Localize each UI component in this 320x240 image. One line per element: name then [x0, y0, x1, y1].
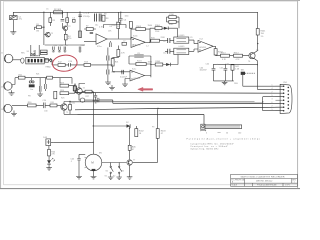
resistor R207: [82, 90, 93, 93]
resistor R103: [49, 12, 56, 26]
ground: [222, 82, 228, 84]
filter block FL1: [174, 37, 189, 43]
transistor T4b on bus B: [79, 94, 85, 102]
svg-text:R27: R27: [86, 96, 89, 98]
svg-text:C7: C7: [123, 41, 125, 43]
svg-text:C9: C9: [190, 37, 192, 39]
capacitor C302: [165, 49, 174, 54]
wire IC2 output: [213, 45, 215, 47]
svg-text:C30: C30: [44, 111, 47, 113]
wire mid column: [107, 48, 109, 83]
ground: [46, 168, 52, 170]
svg-text:TA 1: TA 1: [241, 69, 245, 72]
wire bus E: [78, 115, 205, 125]
node: [93, 142, 94, 143]
transistor Q5: [127, 160, 132, 177]
svg-text:10u/16V: 10u/16V: [200, 70, 208, 72]
wire: [25, 77, 47, 79]
wire feedback row2: [129, 56, 151, 77]
wire dashed tap: [245, 72, 255, 74]
svg-text:C16: C16: [59, 45, 62, 47]
svg-text:6: 6: [272, 102, 273, 104]
svg-text:S1: S1: [105, 176, 107, 178]
switch SW1: [106, 163, 114, 178]
svg-text:3=bias freq. 60/65 kHz: 3=bias freq. 60/65 kHz: [190, 147, 218, 150]
svg-text:1M: 1M: [36, 31, 39, 33]
svg-text:CN1: CN1: [283, 82, 287, 84]
wire row2 opamp inputs: [113, 72, 130, 84]
node: [93, 92, 94, 93]
svg-text:C12: C12: [163, 52, 166, 54]
capacitor C206: [119, 19, 127, 24]
wire feedback loop: [131, 28, 150, 42]
svg-text:P=testpoint A=on-channel + al: P=testpoint A=on-channel + alignment (he…: [187, 137, 260, 140]
page outer scan edge: [0, 0, 300, 189]
node row above head: [30, 55, 40, 56]
resistor R112 in ellipse: [58, 62, 65, 67]
wire: [69, 84, 78, 94]
svg-text:1.2: 1.2: [146, 46, 149, 48]
wire output row: [216, 54, 249, 57]
resistor R208: [102, 15, 109, 21]
wire: [65, 64, 84, 66]
ground: [105, 82, 111, 84]
ground: [37, 94, 43, 96]
wire opamp1 inputs: [107, 38, 131, 40]
wire connector feeders: [243, 75, 284, 111]
svg-text:T7: T7: [133, 160, 135, 162]
resistor R401: [256, 29, 266, 36]
capacitor C201: [39, 78, 41, 94]
wire: [13, 59, 21, 61]
capacitor C102: [61, 20, 69, 22]
wire row to ellipse: [44, 60, 57, 65]
ground: [10, 32, 16, 34]
wire row2 output: [145, 65, 156, 76]
capacitor C103: [78, 15, 90, 18]
node: [43, 27, 44, 28]
node: [113, 71, 114, 72]
node: [150, 64, 151, 65]
transistor Q4: [61, 104, 67, 110]
wire bias rail: [45, 44, 85, 46]
svg-text:100n: 100n: [125, 16, 129, 18]
feedback resistor R303: [136, 26, 145, 31]
svg-text:0.022uF: 0.022uF: [120, 77, 128, 79]
value labels top-right: [190, 36, 264, 39]
note text block: [187, 137, 260, 150]
transistor Q1: [46, 32, 54, 37]
capacitor C101: [10, 16, 23, 21]
svg-text:C18: C18: [81, 45, 84, 47]
svg-text:2: 2: [272, 106, 273, 108]
node: [74, 92, 75, 93]
svg-text:LM1458: LM1458: [199, 47, 206, 49]
value labels top-left: [46, 9, 104, 47]
wire cluster bottom: [213, 81, 233, 83]
svg-text:0.0039: 0.0039: [179, 46, 185, 48]
node: [79, 12, 80, 13]
svg-text:C15: C15: [54, 45, 57, 47]
node: [93, 125, 94, 126]
value labels top-mid: [104, 13, 184, 48]
resistor R102 on rail: [54, 9, 63, 14]
svg-text:100: 100: [238, 133, 241, 135]
capacitor C112: [63, 47, 66, 53]
capacitor C208 mid column: [107, 56, 116, 61]
jack J3 MIC: [1, 104, 12, 112]
resistor R104: [64, 31, 72, 46]
svg-text:1 OF 1: 1 OF 1: [285, 185, 290, 187]
svg-text:C8: C8: [163, 41, 165, 43]
capacitor C115: [48, 59, 52, 62]
wire cap ground: [78, 164, 80, 177]
ground: [122, 84, 128, 86]
capacitor C110: [52, 47, 55, 53]
svg-text:REC: REC: [21, 53, 26, 55]
svg-text:R.C.PHILIPS TA: R.C.PHILIPS TA: [232, 179, 245, 182]
wire: [43, 12, 45, 45]
svg-text:0.5: 0.5: [131, 147, 134, 149]
filter block FL2: [174, 48, 189, 54]
svg-text:SANYO M2511 CASSETTE RECORDER: SANYO M2511 CASSETTE RECORDER: [241, 175, 285, 178]
resistor R220: [113, 46, 126, 59]
wire R403 rail: [157, 109, 159, 162]
wire trim net: [167, 17, 180, 28]
wire lamp rail: [93, 126, 129, 159]
title block: [231, 174, 298, 186]
resistor R206: [73, 84, 76, 91]
resistor R404: [48, 149, 56, 156]
svg-text:PHILA CA. AMSTERDAM: PHILA CA. AMSTERDAM: [257, 184, 277, 187]
resistor R211: [122, 42, 126, 45]
ground: [116, 177, 122, 179]
inner drawing frame: [4, 1, 298, 185]
wire power cluster rail: [213, 64, 257, 89]
capacitor C230: [36, 103, 50, 109]
svg-text:1N60: 1N60: [148, 61, 153, 63]
svg-text:C5: C5: [46, 9, 48, 11]
wire bus C: [70, 101, 263, 103]
resistor R304 220K: [155, 25, 162, 30]
resistor R106: [79, 31, 82, 38]
svg-text:R25: R25: [61, 98, 64, 100]
wire R-diode row1: [150, 28, 178, 37]
svg-text:0: 0: [206, 133, 207, 135]
svg-text:S2: S2: [113, 176, 115, 178]
svg-text:Cxx: Cxx: [30, 89, 33, 91]
resistor R230: [28, 102, 37, 107]
wire: [12, 78, 19, 93]
resistor R204: [60, 90, 69, 95]
wire Q4 collector: [64, 102, 70, 104]
connector P1: [21, 58, 24, 63]
svg-text:R9: R9: [110, 26, 112, 28]
LED D404: [47, 156, 55, 168]
capacitor C202: [45, 78, 47, 91]
value labels mid: [21, 47, 250, 114]
svg-text:R21: R21: [36, 74, 39, 76]
DIN connector CN1: [276, 82, 293, 114]
svg-text:S3: S3: [27, 51, 29, 53]
svg-text:C3 47p: C3 47p: [83, 16, 91, 18]
resistor R107: [86, 28, 93, 31]
svg-text:2: 2: [272, 92, 273, 94]
svg-text:5: 5: [272, 95, 273, 97]
wire: [84, 29, 96, 41]
resistor R210 vertical: [129, 21, 132, 29]
op-amp U1a: [96, 34, 107, 48]
svg-text:T6: T6: [248, 61, 250, 63]
resistor R305: [155, 61, 163, 66]
capacitor C301: [166, 38, 174, 43]
capacitor C104 electrolytic: [93, 12, 96, 22]
svg-text:C20: C20: [43, 100, 46, 102]
svg-text:1: 1: [272, 85, 273, 87]
jack J2: [1, 82, 12, 90]
node: [157, 108, 158, 109]
head erase coil: [31, 53, 36, 55]
wire emitter down: [254, 58, 258, 65]
svg-text:50: 50: [226, 133, 228, 135]
wire Q4 emitter: [64, 110, 78, 114]
svg-text:0.0039: 0.0039: [179, 35, 185, 37]
svg-text:T5: T5: [66, 112, 68, 114]
resistor R311: [169, 20, 176, 23]
wire motor top feed: [54, 141, 93, 143]
resistor R205: [54, 91, 57, 99]
node: [262, 101, 263, 102]
svg-text:HEAD: HEAD: [46, 66, 52, 69]
capacitor C106: [90, 32, 93, 33]
resistor R113: [84, 62, 91, 67]
svg-text:R31: R31: [51, 102, 54, 104]
jack J1 REC: [1, 53, 13, 63]
wire Q5 emitter: [133, 161, 158, 163]
node: [149, 42, 150, 43]
zener D401: [126, 122, 130, 129]
wire: [79, 12, 81, 38]
resistor R403: [156, 129, 166, 139]
svg-text:220K: 220K: [155, 31, 160, 33]
node: [120, 12, 121, 13]
svg-text:C17: C17: [65, 45, 68, 47]
svg-text:R10: R10: [117, 26, 120, 28]
resistor R231: [50, 104, 61, 107]
svg-text:R32: R32: [72, 103, 75, 105]
node: [257, 43, 258, 44]
ground: [91, 177, 97, 179]
svg-text:P3: P3: [152, 127, 154, 129]
capacitor C405: [71, 155, 86, 164]
resistor R111: [41, 53, 48, 55]
svg-text:5: 5: [272, 109, 273, 111]
tape head HD2 PB: [29, 78, 35, 92]
motor M1: [85, 153, 103, 171]
ground: [76, 177, 82, 179]
wire R-diode row2: [163, 55, 178, 65]
ruler scale: [205, 125, 242, 129]
svg-text:3: 3: [272, 99, 273, 101]
op-amp IC1c: [130, 68, 145, 81]
feedback capacitor C223: [134, 55, 143, 57]
wire: [12, 20, 14, 32]
node: [62, 12, 63, 13]
svg-text:LM1458: LM1458: [134, 44, 141, 46]
diode D402: [241, 69, 246, 75]
capacitor C111: [58, 47, 61, 53]
resistor R201: [18, 74, 25, 79]
resistor R405: [128, 145, 136, 151]
svg-text:LM1458: LM1458: [133, 78, 140, 80]
svg-text:SCALE: SCALE: [232, 184, 238, 187]
resistor R314: [234, 52, 243, 57]
resistor R313: [221, 52, 230, 57]
ruler hub: [201, 124, 205, 129]
svg-text:10u: 10u: [95, 25, 98, 27]
svg-text:C11: C11: [137, 53, 140, 55]
ground tap: [109, 84, 116, 90]
svg-text:220K: 220K: [161, 37, 166, 39]
svg-text:C41: C41: [226, 64, 229, 66]
capacitor C105 electrolytic: [99, 14, 104, 22]
capacitor C221: [120, 70, 128, 79]
resistor R221: [111, 59, 118, 72]
resistor R312: [214, 46, 224, 55]
resistor R105: [66, 12, 69, 26]
ground: [11, 114, 17, 116]
capacitor C207: [110, 41, 112, 47]
wire collector Q2: [79, 84, 85, 88]
svg-text:C41: C41: [220, 67, 223, 69]
node: [121, 71, 122, 72]
node: [43, 12, 44, 13]
capacitor C233: [97, 98, 99, 102]
svg-text:R7: R7: [86, 26, 88, 28]
transistor Q3: [249, 50, 259, 59]
svg-text:C3 47p: C3 47p: [83, 13, 89, 15]
resistor R115: [44, 58, 48, 62]
ruler bracket: [201, 130, 221, 134]
wire bus D: [75, 107, 284, 110]
page bottom scan edge: [0, 188, 300, 190]
svg-text:S4: S4: [33, 51, 35, 53]
resistor R110: [41, 50, 48, 52]
ground: [108, 177, 114, 179]
wire: [12, 105, 28, 113]
annotation red ellipse: [52, 54, 78, 72]
resistor R101: [34, 24, 44, 33]
svg-text:T4: T4: [83, 88, 85, 90]
node: [69, 101, 70, 102]
resistor R233: [74, 84, 77, 93]
svg-text:R224: R224: [137, 61, 142, 63]
svg-text:C40: C40: [206, 64, 209, 66]
feedback resistor R224: [136, 63, 146, 66]
resistor R402b: [231, 65, 240, 81]
svg-text:R2 3K3: R2 3K3: [54, 9, 62, 11]
wire bus A: [75, 92, 284, 95]
svg-text:5%: 5%: [261, 36, 264, 38]
capacitor C209 mid column: [107, 70, 116, 75]
switch SW2: [119, 163, 124, 178]
value labels bottom: [105, 127, 242, 178]
svg-text:1N60: 1N60: [148, 25, 153, 27]
transistor Q2a: [63, 26, 71, 31]
wire lamp branch: [49, 142, 54, 149]
wire V+ top rail: [13, 12, 257, 15]
ground: [9, 93, 15, 95]
diode D301: [164, 27, 168, 30]
wire filter outputs: [189, 40, 198, 51]
op-amp IC1b: [131, 35, 145, 47]
wire motor right: [102, 162, 127, 164]
ground: [93, 101, 99, 103]
resistor R402: [135, 126, 145, 137]
svg-text:IC1c: IC1c: [132, 68, 136, 70]
capacitor C310: [169, 14, 176, 19]
ground: [127, 177, 133, 179]
wire to row2 net: [91, 64, 113, 66]
resistor R232: [69, 102, 72, 115]
svg-text:S2: S2: [122, 171, 124, 173]
wire motor bottom: [93, 171, 95, 177]
transistor Q2: [76, 88, 82, 94]
capacitor C232: [94, 93, 97, 101]
capacitor C103b: [72, 18, 75, 23]
motor brush mark: [92, 169, 96, 171]
wire collector rail: [254, 12, 258, 53]
resistor R301: [150, 37, 166, 42]
svg-text:R21: R21: [115, 62, 118, 64]
wire head feeds: [31, 45, 39, 56]
wire: [62, 12, 64, 28]
diode D403: [43, 137, 50, 145]
wire bus B: [85, 100, 284, 104]
svg-text:mm: mm: [218, 132, 222, 134]
annotation red arrow: [138, 87, 153, 91]
svg-text:1: 1: [294, 182, 295, 184]
resistor R202: [47, 76, 53, 79]
diode D302: [166, 63, 170, 66]
capacitor C113: [79, 47, 82, 53]
wire motor feed: [92, 92, 94, 154]
svg-text:S1: S1: [106, 171, 108, 173]
wire pin labels: [272, 85, 273, 112]
resistor R203: [60, 82, 69, 87]
tape head HD1 REC/PB: [26, 57, 44, 64]
capacitor C114 in ellipse: [68, 61, 73, 71]
svg-text:R8: R8: [104, 13, 106, 15]
resistor R209 vertical: [112, 12, 120, 38]
capacitor C401 electrolytic: [200, 64, 216, 81]
capacitor C402 electrolytic: [220, 64, 228, 81]
svg-text:DWG NO. M2511-2: DWG NO. M2511-2: [256, 181, 272, 183]
wire: [53, 78, 73, 84]
wire output: [145, 41, 150, 43]
wire divider feed: [104, 12, 127, 28]
svg-text:R311: R311: [169, 24, 173, 26]
op-amp IC2: [198, 39, 213, 53]
svg-text:4: 4: [272, 88, 273, 90]
wire base Q1: [44, 34, 47, 36]
